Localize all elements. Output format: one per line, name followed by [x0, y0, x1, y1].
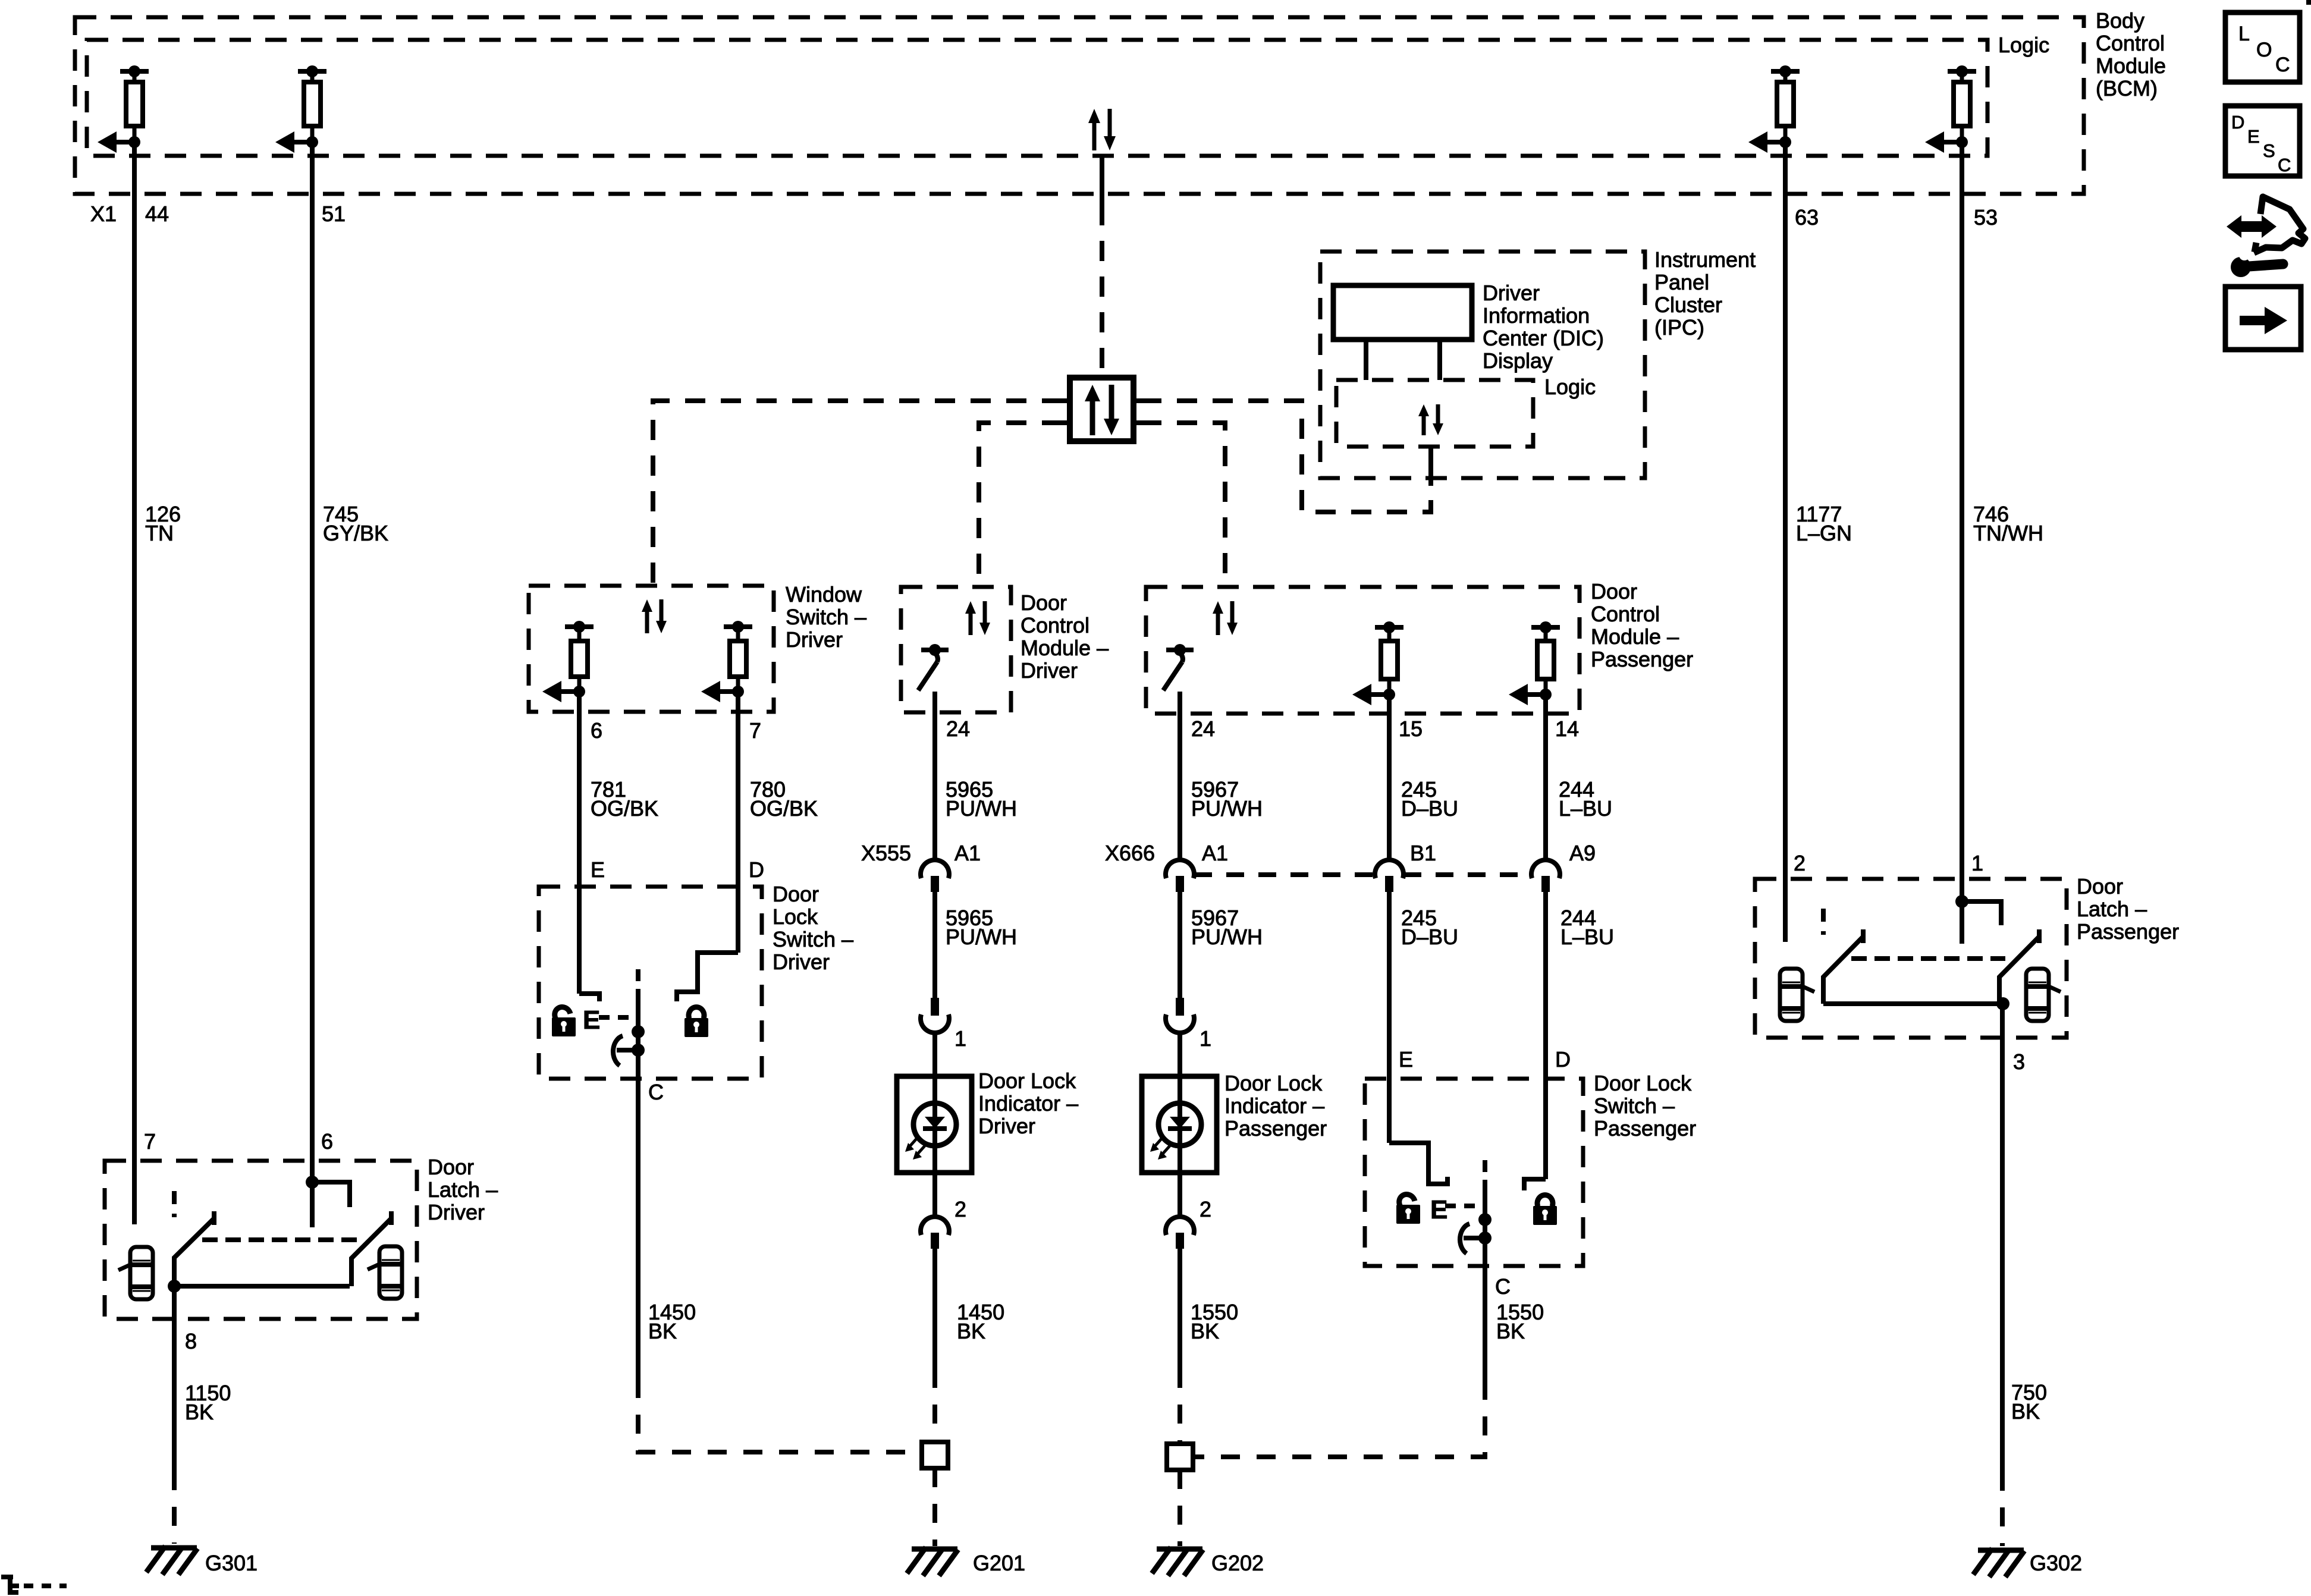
svg-text:BK: BK	[957, 1319, 985, 1343]
svg-text:Switch –: Switch –	[773, 927, 853, 951]
svg-text:Switch –: Switch –	[786, 605, 866, 629]
wire 126 TN from BCM pin 44	[132, 142, 137, 1224]
wire from indicator passenger pin 2	[1178, 1173, 1182, 1217]
corner tick top-right	[2306, 0, 2311, 5]
DCM passenger serial arrows	[1213, 601, 1238, 635]
door lock switch passenger lever linkage dashes	[1483, 1160, 1487, 1180]
door latch driver output junction	[168, 1280, 181, 1293]
svg-text:Passenger: Passenger	[1224, 1116, 1327, 1141]
IPC logic box	[1336, 380, 1533, 447]
IPC serial data arrows	[1418, 404, 1443, 435]
dashed wire to ground G301	[172, 1471, 177, 1544]
svg-text:G301: G301	[205, 1551, 258, 1575]
svg-text:14: 14	[1555, 717, 1579, 741]
svg-text:(BCM): (BCM)	[2096, 76, 2158, 100]
svg-text:Module: Module	[2096, 54, 2166, 78]
wire pin 14 to connector	[1543, 695, 1548, 860]
svg-text:Door: Door	[1021, 590, 1067, 615]
svg-text:Door: Door	[2077, 874, 2123, 898]
dashed wire to splice S1	[932, 1369, 937, 1442]
wire pin 8 from door latch driver	[172, 1286, 177, 1471]
svg-text:Display: Display	[1483, 348, 1553, 373]
car icon right (driver latch)	[368, 1246, 402, 1299]
wire to indicator passenger	[1178, 1032, 1182, 1076]
serial data bus to door control module passenger	[1141, 423, 1225, 587]
door latch driver common rail	[174, 1284, 350, 1289]
svg-text:E: E	[2247, 126, 2260, 147]
wire 1177 L-GN from BCM pin 63	[1783, 142, 1788, 942]
svg-text:PU/WH: PU/WH	[1191, 925, 1263, 949]
svg-text:L: L	[2238, 23, 2250, 45]
door latch passenger common rail	[1823, 1001, 2003, 1006]
svg-text:X666: X666	[1105, 841, 1155, 865]
wire 780 OG/BK	[736, 692, 740, 953]
door latch driver right blade	[351, 1211, 391, 1286]
serial data dashed bus from BCM	[1100, 205, 1104, 378]
BCM internal pull-up resistor, pin 63	[1748, 65, 1800, 153]
window switch driver box	[529, 586, 774, 712]
inline connector to indicator passenger pin 1	[1166, 998, 1194, 1033]
door latch driver blade link dashes	[202, 1237, 357, 1242]
svg-text:X1: X1	[90, 202, 117, 226]
wire 5965 PU/WH	[932, 892, 937, 998]
dashed link from passenger lock switch to splice S2	[1193, 1381, 1485, 1457]
svg-text:L–BU: L–BU	[1560, 925, 1614, 949]
serial data wire from BCM logic	[1100, 156, 1104, 205]
label: 1177 L-GN	[1796, 502, 1852, 545]
svg-text:S: S	[2263, 140, 2275, 161]
label: Body Control Module (BCM)	[2096, 8, 2166, 100]
door latch passenger right blade	[1999, 929, 2039, 1004]
wire 1450 BK from driver lock switch	[636, 1079, 640, 1379]
svg-text:BK: BK	[648, 1319, 677, 1343]
splice S2	[1167, 1444, 1193, 1470]
serial data gateway box	[1062, 378, 1141, 441]
door lock switch driver common line	[636, 989, 640, 1079]
label: 5967 PU/WH (lower)	[1191, 906, 1263, 949]
inline connector at indicator passenger pin 2	[1166, 1217, 1194, 1249]
BCM internal pull-up resistor, pin 53	[1925, 65, 1976, 153]
door latch passenger box	[1755, 879, 2067, 1038]
wire 745 GY/BK from BCM pin 51	[310, 142, 315, 1182]
label: 5965 PU/WH (lower)	[946, 906, 1017, 949]
door latch driver pin 6 junction	[306, 1176, 350, 1227]
next-page arrow icon box	[2225, 287, 2301, 350]
svg-text:Panel: Panel	[1654, 270, 1709, 294]
wire 781 OG/BK	[577, 692, 582, 994]
svg-text:Door: Door	[1591, 579, 1637, 604]
page-edge mark bottom-left	[1, 1575, 67, 1595]
connector X666 dashed gang line	[1194, 872, 1531, 877]
label: Window Switch - Driver	[786, 582, 866, 652]
wire 5967 PU/WH	[1178, 892, 1182, 998]
svg-text:1: 1	[1971, 851, 1983, 875]
label: 245 D-BU (lower)	[1401, 906, 1458, 949]
DCM passenger resistor, pin 15	[1352, 621, 1403, 705]
svg-text:E: E	[1430, 1195, 1447, 1224]
label: 5967 PU/WH (upper)	[1191, 777, 1263, 821]
wire 245 E contact jog	[1389, 1143, 1447, 1184]
svg-text:Logic: Logic	[1998, 33, 2049, 57]
label: 745 GY/BK	[323, 502, 388, 545]
door latch passenger blade link dashes	[1851, 956, 2005, 961]
unlock padlock icon (driver)	[551, 1004, 576, 1036]
body control module (BCM) outer box	[75, 17, 2084, 194]
svg-text:Indicator –: Indicator –	[1224, 1094, 1324, 1118]
svg-text:D: D	[749, 857, 764, 882]
label: Door Lock Switch - Driver	[773, 882, 853, 974]
label: 780 OG/BK	[750, 777, 818, 821]
svg-text:2: 2	[1794, 851, 1806, 875]
svg-text:BK: BK	[185, 1400, 213, 1424]
svg-text:OG/BK: OG/BK	[591, 796, 658, 821]
LOC icon box	[2225, 12, 2300, 82]
svg-text:BK: BK	[1191, 1319, 1219, 1343]
dashed wire from splice S1 to ground	[932, 1468, 937, 1546]
svg-text:X555: X555	[861, 841, 911, 865]
svg-text:Door Lock: Door Lock	[1224, 1071, 1323, 1095]
svg-text:G201: G201	[973, 1551, 1025, 1575]
label: Door Latch - Driver	[428, 1155, 498, 1224]
wire 245 D-BU	[1387, 892, 1392, 1143]
svg-text:Passenger: Passenger	[1591, 647, 1693, 671]
label: 1550 BK (passenger lock switch)	[1496, 1300, 1544, 1343]
label: 1550 BK (indicator passenger)	[1191, 1300, 1238, 1343]
door latch driver box	[105, 1161, 417, 1319]
svg-text:Passenger: Passenger	[2077, 919, 2179, 944]
label: Door Lock Indicator - Passenger	[1224, 1071, 1327, 1141]
wire 781 hook at E contact	[579, 994, 599, 1001]
svg-text:PU/WH: PU/WH	[946, 796, 1017, 821]
wire pin 24 passenger	[1178, 692, 1182, 860]
inline connector at indicator driver pin 2	[921, 1217, 949, 1249]
svg-text:B1: B1	[1410, 841, 1436, 865]
label: 5965 PU/WH (upper)	[946, 777, 1017, 821]
svg-text:44: 44	[145, 202, 169, 226]
BCM internal pull-up resistor, pin 51	[275, 65, 326, 153]
wire pin 15 to connector	[1387, 695, 1392, 860]
door lock switch driver lever linkage dashes	[636, 969, 640, 989]
ground G201 symbol	[907, 1547, 958, 1576]
svg-text:Lock: Lock	[773, 904, 818, 929]
lock padlock icon (driver)	[684, 1007, 708, 1037]
car icon right (passenger latch)	[2026, 969, 2061, 1021]
svg-text:7: 7	[749, 718, 761, 743]
inline connector B1	[1375, 860, 1403, 892]
serial data bus to IPC	[1141, 401, 1431, 512]
svg-text:E: E	[583, 1006, 600, 1035]
svg-text:Driver: Driver	[786, 627, 843, 652]
svg-text:Door: Door	[773, 882, 819, 906]
svg-text:D: D	[2231, 112, 2244, 133]
wire 1450 BK to splice	[932, 1249, 937, 1369]
door lock switch driver lever	[613, 1025, 645, 1066]
svg-text:Door: Door	[428, 1155, 474, 1179]
label: 781 OG/BK	[591, 777, 658, 821]
wire pin 24 driver	[932, 692, 937, 860]
BCM logic box	[87, 40, 1987, 156]
wire 244 D contact jog	[1524, 1179, 1546, 1190]
svg-text:E: E	[1399, 1047, 1413, 1072]
svg-text:C: C	[2275, 54, 2290, 76]
svg-text:2: 2	[1200, 1197, 1211, 1221]
label: Door Lock Indicator - Driver	[978, 1069, 1078, 1138]
label: 1150 BK	[185, 1381, 231, 1424]
svg-text:3: 3	[2013, 1050, 2025, 1074]
door lock switch driver box	[539, 887, 762, 1079]
svg-text:Control: Control	[1021, 613, 1089, 637]
label: Door Latch - Passenger	[2077, 874, 2179, 944]
driver information center (DIC) display box	[1333, 285, 1472, 340]
svg-text:Cluster: Cluster	[1654, 293, 1722, 317]
inline connector to indicator pin 1	[921, 998, 949, 1033]
svg-text:D–BU: D–BU	[1401, 796, 1458, 821]
svg-text:2: 2	[954, 1197, 966, 1221]
label: 1450 BK (indicator driver)	[957, 1300, 1004, 1343]
svg-text:(IPC): (IPC)	[1654, 315, 1704, 340]
door latch driver left blade	[174, 1211, 214, 1286]
DCM passenger output switch	[1163, 644, 1194, 690]
svg-text:C: C	[648, 1080, 664, 1104]
door control module passenger box	[1146, 587, 1580, 714]
label: 126 TN	[145, 502, 181, 545]
svg-text:Driver: Driver	[773, 950, 830, 974]
svg-text:Switch –: Switch –	[1594, 1094, 1675, 1118]
door lock indicator passenger (LED)	[1142, 1076, 1217, 1173]
door lock switch passenger common line	[1483, 1180, 1487, 1266]
svg-text:1: 1	[954, 1026, 966, 1051]
svg-text:24: 24	[946, 717, 970, 741]
door lock indicator driver (LED)	[897, 1076, 972, 1173]
svg-text:51: 51	[322, 202, 346, 226]
svg-text:Latch –: Latch –	[428, 1177, 498, 1202]
window switch serial arrows	[642, 599, 667, 633]
svg-text:Information: Information	[1483, 303, 1590, 328]
wire 746 TN/WH from BCM pin 53	[1960, 142, 1964, 901]
wire 780 jog to D contact	[677, 953, 738, 1001]
svg-text:L–BU: L–BU	[1559, 796, 1612, 821]
svg-text:Module –: Module –	[1591, 624, 1679, 649]
svg-text:TN: TN	[145, 521, 174, 545]
label: Door Control Module - Passenger	[1591, 579, 1693, 671]
ground G302 symbol	[1973, 1548, 2024, 1577]
label: Door Control Module - Driver	[1021, 590, 1109, 683]
svg-text:OG/BK: OG/BK	[750, 796, 818, 821]
diagnostic tool icon (double arrow, connector, wrench)	[2227, 197, 2305, 277]
svg-text:PU/WH: PU/WH	[946, 925, 1017, 949]
wire pin 3 from door latch passenger	[2000, 1004, 2005, 1472]
serial data bus to window switch	[653, 401, 1062, 586]
door latch passenger linkage stub	[1821, 909, 1826, 935]
svg-text:BK: BK	[2011, 1399, 2040, 1424]
door latch passenger output junction	[1996, 997, 2009, 1010]
svg-text:Driver: Driver	[1021, 658, 1078, 683]
svg-text:Door Lock: Door Lock	[978, 1069, 1076, 1093]
svg-text:Indicator –: Indicator –	[978, 1091, 1078, 1116]
svg-text:L–GN: L–GN	[1796, 521, 1852, 545]
wire from IPC logic to serial data bus	[1428, 447, 1433, 486]
window switch resistor, pin 6	[542, 621, 594, 702]
label: Door Lock Switch - Passenger	[1594, 1071, 1696, 1141]
inline connector X555 A1	[921, 860, 949, 892]
ground G301 symbol	[146, 1546, 197, 1575]
svg-text:Instrument: Instrument	[1654, 247, 1756, 272]
label: 244 L-BU (lower)	[1560, 906, 1614, 949]
svg-text:Body: Body	[2096, 8, 2144, 33]
label: 1450 BK (driver lock switch)	[648, 1300, 696, 1343]
ground G202 symbol	[1152, 1547, 1203, 1576]
dashed wire to ground G302	[2000, 1472, 2005, 1546]
BCM internal pull-up resistor, pin 44	[98, 65, 149, 153]
splice S1	[922, 1442, 948, 1468]
svg-text:Logic: Logic	[1544, 375, 1596, 399]
svg-text:Driver: Driver	[428, 1200, 485, 1224]
svg-text:7: 7	[144, 1129, 156, 1154]
svg-text:63: 63	[1795, 205, 1819, 230]
instrument panel cluster (IPC) box	[1320, 252, 1645, 478]
svg-text:Driver: Driver	[1483, 281, 1540, 305]
DCM driver output switch	[918, 644, 949, 690]
unlock padlock icon (passenger)	[1396, 1191, 1420, 1224]
dashed link from driver lock switch to splice	[638, 1379, 922, 1452]
door latch passenger left blade	[1823, 929, 1863, 1004]
door control module driver box	[901, 587, 1011, 712]
svg-text:C: C	[1495, 1274, 1511, 1299]
svg-text:8: 8	[185, 1329, 197, 1353]
svg-text:Latch –: Latch –	[2077, 897, 2147, 921]
DCM passenger resistor, pin 14	[1509, 621, 1560, 705]
svg-text:6: 6	[591, 718, 602, 743]
svg-text:G302: G302	[2030, 1551, 2082, 1575]
label: 245 D-BU (upper)	[1401, 777, 1458, 821]
svg-text:Module –: Module –	[1021, 636, 1109, 660]
door latch driver linkage stub	[172, 1191, 177, 1217]
DCM driver serial arrows	[965, 601, 990, 635]
label: Instrument Panel Cluster (IPC)	[1654, 247, 1756, 340]
BCM serial data arrows	[1088, 109, 1116, 150]
svg-text:24: 24	[1191, 717, 1215, 741]
door lock switch passenger box	[1365, 1079, 1583, 1266]
svg-text:Control: Control	[2096, 31, 2165, 55]
svg-text:C: C	[2278, 155, 2291, 175]
svg-text:6: 6	[321, 1129, 333, 1154]
svg-text:E: E	[591, 857, 605, 882]
svg-text:G202: G202	[1211, 1551, 1264, 1575]
svg-text:Door Lock: Door Lock	[1594, 1071, 1692, 1095]
wire from indicator driver pin 2	[932, 1173, 937, 1217]
wire 244 L-BU	[1543, 892, 1548, 1179]
svg-text:Passenger: Passenger	[1594, 1116, 1696, 1141]
svg-text:15: 15	[1399, 717, 1423, 741]
lock marker dashes (passenger)	[1445, 1204, 1487, 1208]
wire 1550 BK to splice	[1178, 1249, 1182, 1369]
label: 746 TN/WH	[1973, 502, 2043, 545]
wire 1550 BK from passenger lock switch	[1483, 1266, 1487, 1381]
svg-text:PU/WH: PU/WH	[1191, 796, 1263, 821]
svg-text:O: O	[2256, 39, 2272, 61]
svg-text:1: 1	[1200, 1026, 1211, 1051]
svg-text:Window: Window	[786, 582, 862, 607]
svg-text:TN/WH: TN/WH	[1973, 521, 2043, 545]
lock marker dashes (driver)	[599, 1015, 640, 1020]
car icon left (driver latch)	[118, 1247, 153, 1299]
DESC icon box	[2225, 106, 2300, 176]
label: 244 L-BU (upper)	[1559, 777, 1612, 821]
svg-text:Control: Control	[1591, 602, 1660, 626]
label: Driver Information Center (DIC) Display	[1483, 281, 1604, 373]
serial data bus to door control module driver	[979, 423, 1062, 587]
svg-text:Driver: Driver	[978, 1114, 1035, 1138]
dashed wire from splice S2 to ground	[1178, 1470, 1182, 1546]
door lock switch passenger lever	[1460, 1213, 1492, 1253]
dashed wire to splice S2	[1178, 1369, 1182, 1444]
DIC display leg left	[1364, 340, 1368, 380]
DIC display leg right	[1437, 340, 1442, 380]
svg-text:A9: A9	[1569, 841, 1596, 865]
door latch passenger pin 1 junction	[1955, 895, 2001, 944]
svg-text:A1: A1	[1202, 841, 1228, 865]
inline connector X666 A1	[1166, 860, 1194, 892]
svg-text:D–BU: D–BU	[1401, 925, 1458, 949]
label: 750 BK	[2011, 1380, 2047, 1424]
svg-text:Center (DIC): Center (DIC)	[1483, 326, 1604, 350]
svg-text:BK: BK	[1496, 1319, 1525, 1343]
lock padlock icon (passenger)	[1533, 1195, 1557, 1225]
car icon left (passenger latch)	[1780, 969, 1814, 1021]
wire to indicator driver	[932, 1032, 937, 1076]
svg-text:A1: A1	[954, 841, 981, 865]
window switch resistor, pin 7	[701, 621, 752, 702]
inline connector A9	[1531, 860, 1560, 892]
svg-text:GY/BK: GY/BK	[323, 521, 388, 545]
svg-text:53: 53	[1974, 205, 1998, 230]
svg-text:D: D	[1555, 1047, 1571, 1072]
